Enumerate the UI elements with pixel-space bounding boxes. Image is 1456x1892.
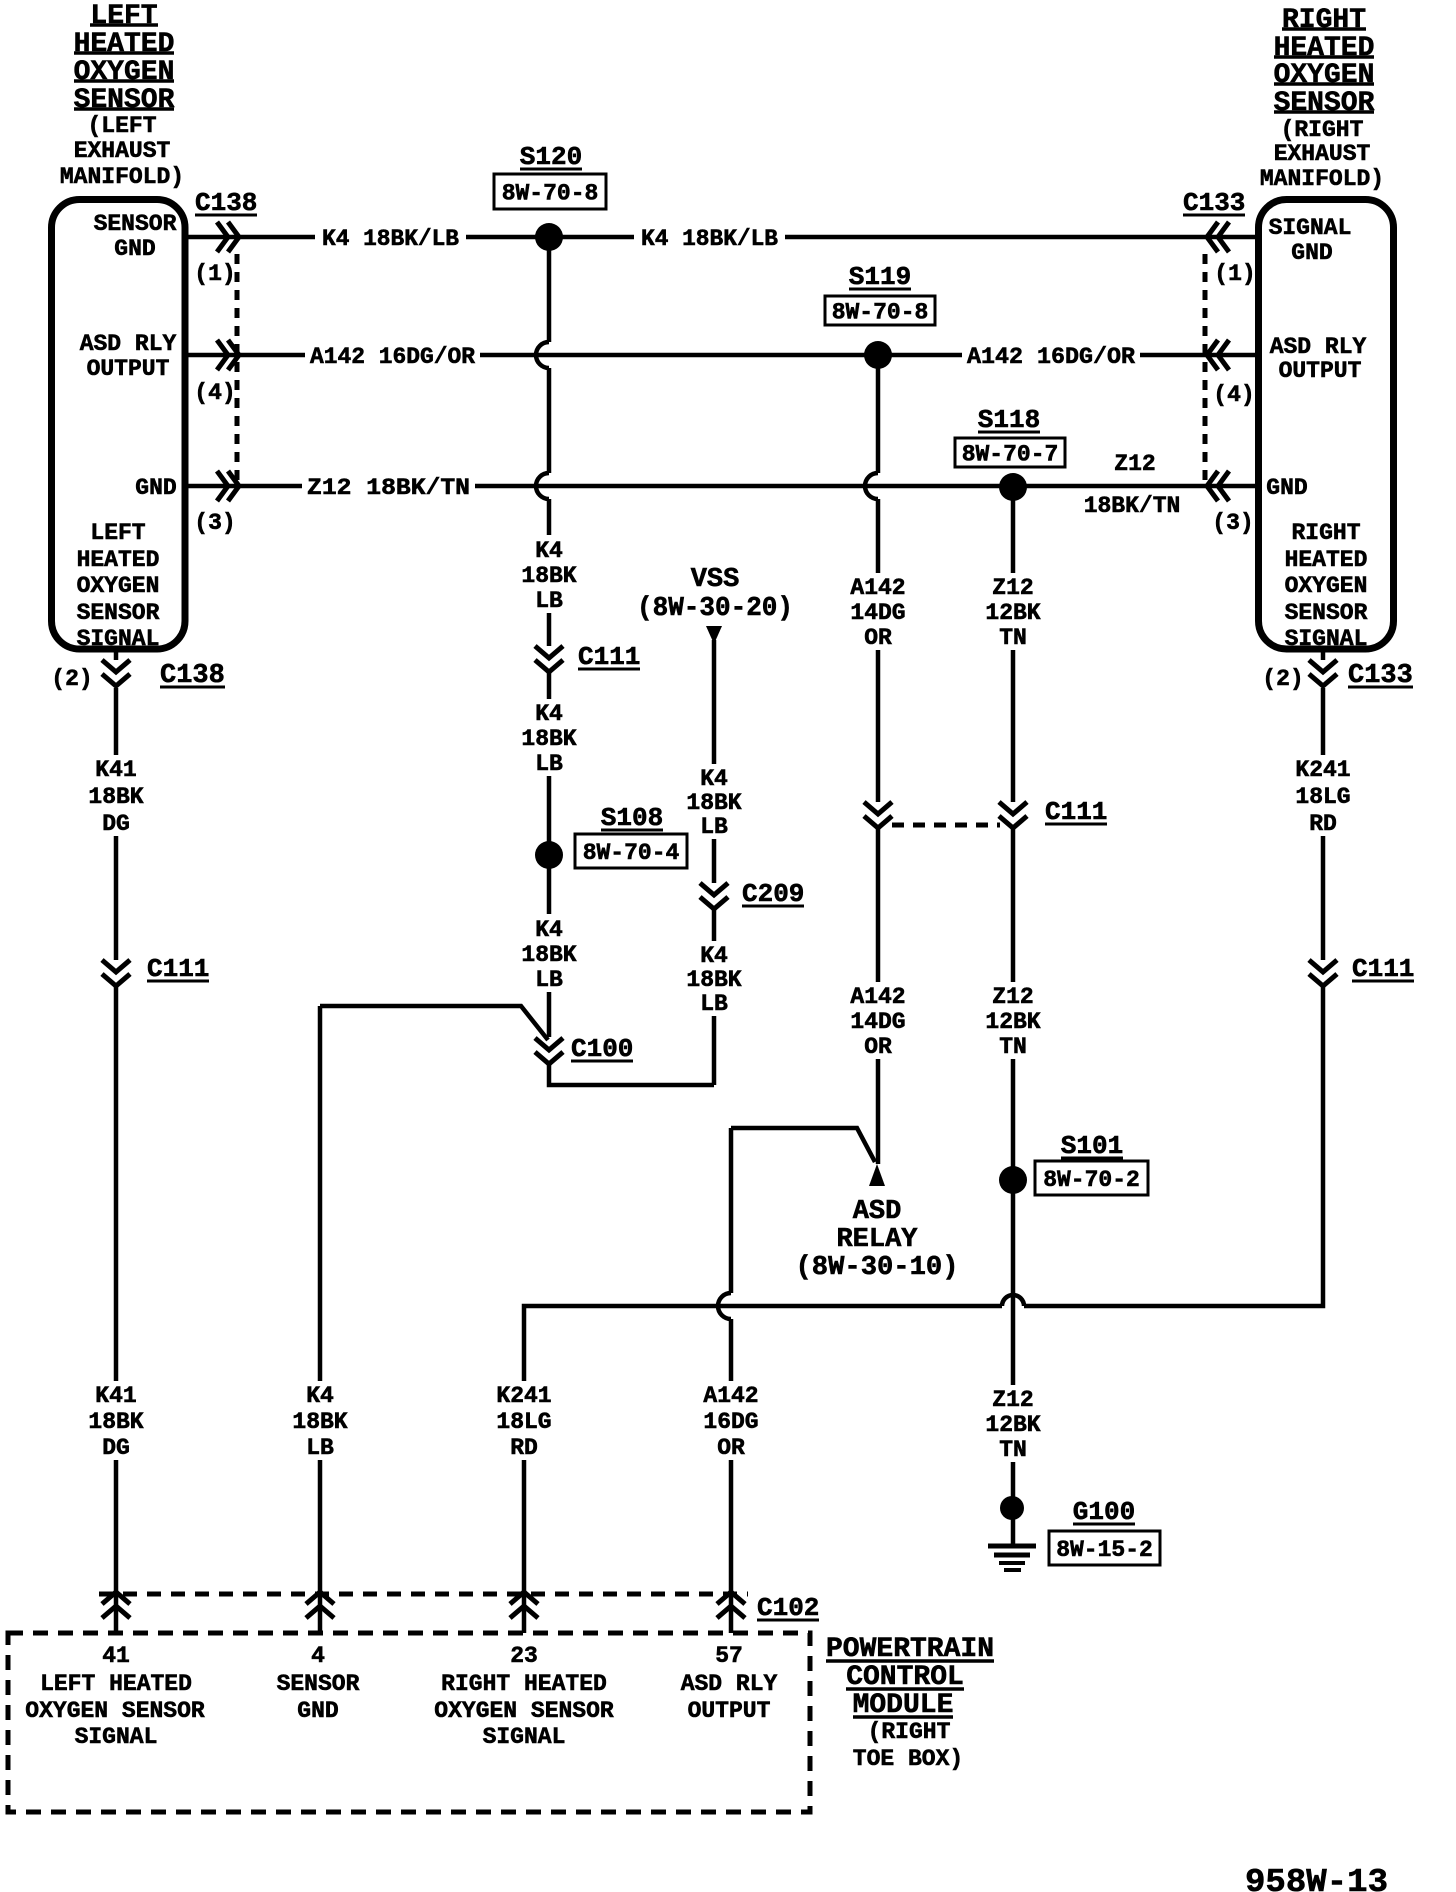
connector C100 chevrons (535, 1038, 563, 1064)
pin (3) left (194, 510, 235, 536)
wire to C111 right (1321, 836, 1326, 960)
wire below C209 (712, 909, 717, 941)
VSS arrow (706, 626, 722, 644)
pin (4) left (194, 380, 235, 406)
wire from S119 right (890, 353, 962, 358)
PCM pin 4 labels (277, 1643, 360, 1724)
svg-text:18BK: 18BK (88, 784, 143, 810)
svg-text:(4): (4) (194, 380, 235, 406)
wire K4 18BK/LB sensor gnd left segment (188, 235, 315, 240)
svg-text:LEFT HEATED: LEFT HEATED (40, 1671, 192, 1697)
wire pin 4 down (318, 1006, 323, 1381)
svg-text:18BK: 18BK (521, 726, 576, 752)
svg-text:RD: RD (1309, 811, 1337, 837)
svg-text:8W-70-7: 8W-70-7 (962, 442, 1059, 468)
svg-text:SENSOR: SENSOR (94, 211, 177, 237)
label K4 18BK/LB right (641, 226, 778, 252)
svg-text:(3): (3) (1212, 510, 1253, 536)
wire Z12 left segment (188, 484, 302, 489)
wire down to S101 (1011, 1059, 1016, 1168)
svg-text:18BK: 18BK (521, 942, 576, 968)
wire to C100 (547, 992, 552, 1037)
connector C102 dashed line (99, 1592, 748, 1597)
svg-text:SIGNAL: SIGNAL (1285, 626, 1368, 652)
svg-text:Z12: Z12 (992, 1387, 1033, 1413)
powertrain control module box (8, 1633, 810, 1812)
svg-text:MANIFOLD): MANIFOLD) (60, 164, 184, 190)
wire from VSS down (712, 640, 717, 764)
pin (3) right (1212, 510, 1253, 536)
svg-text:GND: GND (114, 236, 155, 262)
splice S101 label (1035, 1131, 1148, 1195)
svg-text:SENSOR: SENSOR (1274, 88, 1375, 119)
wire to C111 pair (876, 650, 881, 802)
connector C111 label mid (578, 642, 640, 672)
connector C102 label (757, 1593, 819, 1623)
connector C133 chevrons (1207, 222, 1229, 501)
svg-text:958W-13: 958W-13 (1245, 1864, 1388, 1892)
svg-text:TOE BOX): TOE BOX) (853, 1746, 963, 1772)
wire K241 down to corner (1024, 986, 1323, 1306)
svg-text:K4: K4 (700, 943, 728, 969)
PCM pin 23 labels (434, 1643, 614, 1750)
ground symbol G100 (988, 1546, 1036, 1570)
hop over Z12 wire (536, 473, 549, 499)
svg-text:(8W-30-10): (8W-30-10) (796, 1253, 959, 1283)
wire below S101 through junction (1011, 1193, 1016, 1385)
svg-text:RIGHT HEATED: RIGHT HEATED (441, 1671, 607, 1697)
svg-text:Z12 18BK/TN: Z12 18BK/TN (307, 475, 470, 501)
svg-text:OUTPUT: OUTPUT (1279, 358, 1362, 384)
svg-text:RELAY: RELAY (836, 1225, 918, 1255)
wire below C111 A column (876, 828, 881, 982)
connector C111 label pair (1045, 797, 1107, 827)
svg-text:8W-70-8: 8W-70-8 (832, 300, 929, 326)
connector C111 dashed link (892, 823, 1000, 828)
svg-text:(LEFT: (LEFT (87, 113, 156, 139)
label Z12 18BK/TN two lines (1084, 451, 1181, 519)
svg-text:SENSOR: SENSOR (1285, 600, 1368, 626)
svg-text:TN: TN (999, 1437, 1027, 1463)
svg-text:18BK: 18BK (686, 967, 741, 993)
svg-text:OR: OR (864, 1034, 892, 1060)
svg-text:18LG: 18LG (1295, 784, 1350, 810)
svg-text:ASD RLY: ASD RLY (681, 1671, 778, 1697)
wire to S108 (547, 776, 552, 843)
ASD relay arrow (869, 1164, 885, 1186)
wire K241 down (1321, 688, 1326, 755)
svg-text:K4: K4 (306, 1383, 334, 1409)
wire between hops (547, 368, 552, 473)
svg-text:LB: LB (700, 814, 728, 840)
svg-text:TN: TN (999, 1034, 1027, 1060)
svg-text:4: 4 (311, 1643, 325, 1669)
label A142 14DG OR lower (850, 984, 905, 1060)
svg-text:DG: DG (102, 811, 130, 837)
wire down to ASD relay arrow (876, 1059, 881, 1164)
svg-text:Z12: Z12 (992, 575, 1033, 601)
svg-text:14DG: 14DG (850, 600, 905, 626)
svg-text:A142: A142 (850, 575, 905, 601)
label A142 16DG OR bottom (703, 1383, 758, 1461)
pin (2) right (1262, 666, 1303, 692)
svg-text:18BK: 18BK (521, 563, 576, 589)
svg-text:LB: LB (535, 751, 563, 777)
wire down to G100 (1011, 1462, 1016, 1545)
svg-text:OXYGEN: OXYGEN (1274, 60, 1375, 91)
svg-text:OR: OR (717, 1435, 745, 1461)
left heated oxygen sensor box (52, 200, 186, 653)
connector C209 label (742, 879, 804, 909)
pin (1) right (1214, 261, 1255, 287)
svg-text:OXYGEN: OXYGEN (74, 57, 175, 88)
svg-text:OR: OR (864, 625, 892, 651)
splice S118 label (955, 405, 1065, 468)
pin (1) left (194, 261, 235, 287)
label Z12 12BK TN lower (985, 984, 1040, 1060)
svg-text:SIGNAL: SIGNAL (1269, 215, 1352, 241)
svg-text:K41: K41 (95, 1383, 136, 1409)
label K4 18BK LB vss 2 (686, 943, 741, 1017)
label K41 18BK DG (88, 757, 143, 837)
svg-text:K4: K4 (535, 538, 563, 564)
svg-text:14DG: 14DG (850, 1009, 905, 1035)
svg-text:OXYGEN SENSOR: OXYGEN SENSOR (25, 1698, 205, 1724)
label K241 18LG RD bottom (496, 1383, 551, 1461)
svg-text:K4 18BK/LB: K4 18BK/LB (322, 226, 459, 252)
svg-text:LEFT: LEFT (90, 1, 157, 32)
connector C138 dashed line (235, 254, 240, 480)
svg-text:(2): (2) (51, 666, 92, 692)
powertrain control module title (826, 1634, 994, 1772)
svg-text:OXYGEN: OXYGEN (77, 573, 160, 599)
svg-text:GND: GND (135, 475, 176, 501)
splice S119 dot (864, 341, 892, 369)
svg-text:OUTPUT: OUTPUT (688, 1698, 771, 1724)
connector C111 chevrons right column (1309, 960, 1337, 986)
wire pin4 horizontal (320, 1006, 548, 1040)
VSS label (637, 565, 793, 624)
splice S120 dot (535, 223, 563, 251)
wire pin57 vertical lower (729, 1319, 734, 1381)
label Z12 18BK/TN left (307, 475, 470, 501)
connector C209 chevrons (700, 883, 728, 909)
svg-text:12BK: 12BK (985, 600, 1040, 626)
wire K41 long down (114, 986, 119, 1381)
svg-text:Z12: Z12 (1114, 451, 1155, 477)
label K241 18LG RD (1295, 757, 1350, 837)
svg-text:18BK/TN: 18BK/TN (1084, 493, 1181, 519)
wire to PCM pin 57 (729, 1460, 734, 1633)
splice S108 label (575, 803, 687, 868)
label K4 18BK LB 2 (521, 701, 576, 777)
label K4 18BK LB 3 (521, 917, 576, 993)
svg-text:SENSOR: SENSOR (77, 600, 160, 626)
connector C133 label bottom (1348, 661, 1413, 691)
svg-text:HEATED: HEATED (1285, 547, 1368, 573)
svg-text:A142: A142 (703, 1383, 758, 1409)
connector C111 chevrons Z column (999, 802, 1027, 828)
svg-text:SIGNAL: SIGNAL (75, 1724, 158, 1750)
wire from S118 to C133 (1026, 484, 1255, 489)
svg-text:MANIFOLD): MANIFOLD) (1260, 166, 1384, 192)
svg-text:(4): (4) (1213, 382, 1254, 408)
wire A142 from S119 down (876, 368, 881, 473)
svg-text:LB: LB (306, 1435, 334, 1461)
label K41 18BK DG bottom (88, 1383, 143, 1461)
svg-text:VSS: VSS (691, 565, 740, 595)
wire to splice S120 (466, 235, 536, 240)
wire below C100 and corner to VSS branch (549, 1064, 714, 1085)
ground G100 dot (1000, 1496, 1024, 1520)
svg-text:EXHAUST: EXHAUST (74, 138, 171, 164)
svg-text:23: 23 (510, 1643, 538, 1669)
svg-text:EXHAUST: EXHAUST (1274, 141, 1371, 167)
label A142 14DG OR upper (850, 575, 905, 651)
wire to PCM pin 23 (522, 1460, 527, 1633)
svg-text:57: 57 (715, 1643, 743, 1669)
wire to C111 (547, 613, 552, 646)
splice S119 label (825, 262, 935, 326)
wire K4 from S120 down (547, 250, 552, 342)
connector C138 label bottom (160, 661, 225, 691)
svg-text:LEFT: LEFT (90, 520, 145, 546)
svg-text:8W-15-2: 8W-15-2 (1056, 1537, 1153, 1563)
svg-text:ASD: ASD (853, 1197, 902, 1227)
svg-text:A142 16DG/OR: A142 16DG/OR (967, 344, 1135, 370)
svg-text:RIGHT: RIGHT (1291, 520, 1360, 546)
connector C111 chevrons A column (864, 802, 892, 828)
svg-text:8W-70-8: 8W-70-8 (502, 181, 599, 207)
svg-text:OUTPUT: OUTPUT (87, 356, 170, 382)
svg-text:LB: LB (535, 588, 563, 614)
label K4 18BK/LB left (322, 226, 459, 252)
svg-text:SIGNAL: SIGNAL (483, 1724, 566, 1750)
wire down to label (547, 499, 552, 535)
svg-text:18LG: 18LG (496, 1409, 551, 1435)
svg-text:K41: K41 (95, 757, 136, 783)
svg-text:SENSOR: SENSOR (277, 1671, 360, 1697)
svg-text:LB: LB (535, 967, 563, 993)
hop over A142 wire (536, 342, 549, 368)
wire to PCM pin 4 (318, 1460, 323, 1633)
svg-text:12BK: 12BK (985, 1009, 1040, 1035)
svg-text:OXYGEN: OXYGEN (1285, 573, 1368, 599)
label K4 18BK LB bottom (292, 1383, 347, 1461)
wire pin57 horizontal to ASD arrow (731, 1128, 875, 1162)
wire K4 to C133 (785, 235, 1255, 240)
svg-text:K241: K241 (496, 1383, 551, 1409)
wire 1306 to pin 23 corner (524, 1306, 1002, 1381)
wire pin57 vertical upper (729, 1128, 734, 1293)
label A142 16DG/OR right (967, 344, 1135, 370)
svg-text:K4: K4 (700, 766, 728, 792)
splice S101 dot (999, 1166, 1027, 1194)
wire K41 from C138 down (114, 688, 119, 755)
connector C111 label left column (147, 954, 209, 984)
hop over Z12 wire A column (865, 473, 878, 499)
svg-text:12BK: 12BK (985, 1412, 1040, 1438)
hop pin57 over 1306 wire (718, 1293, 731, 1319)
PCM pin 57 labels (681, 1643, 778, 1724)
connector C138 bottom chevron (102, 652, 130, 686)
svg-text:RD: RD (510, 1435, 538, 1461)
label Z12 12BK TN bottom (985, 1387, 1040, 1463)
svg-text:K4: K4 (535, 701, 563, 727)
wire Z12 from S118 down (1011, 500, 1016, 573)
svg-text:(RIGHT: (RIGHT (1281, 117, 1364, 143)
connector C133 bottom chevron (1309, 652, 1337, 686)
svg-text:A142 16DG/OR: A142 16DG/OR (310, 344, 475, 370)
svg-text:(1): (1) (194, 261, 235, 287)
svg-text:A142: A142 (850, 984, 905, 1010)
svg-text:SIGNAL: SIGNAL (77, 626, 160, 652)
svg-text:GND: GND (1266, 475, 1307, 501)
svg-text:18BK: 18BK (88, 1409, 143, 1435)
right heated oxygen sensor box (1259, 200, 1394, 653)
wire down to label (876, 499, 881, 573)
PCM pin 41 labels (25, 1643, 205, 1750)
wire to C209 (712, 839, 717, 883)
wire below C111 Z column (1011, 828, 1016, 982)
svg-text:K4: K4 (535, 917, 563, 943)
svg-text:RIGHT: RIGHT (1282, 5, 1366, 36)
wire to C111 pair Z column (1011, 650, 1016, 802)
wire down to junction (712, 1016, 717, 1085)
connector C102 chevrons (102, 1592, 745, 1618)
connector C111 label right column (1352, 954, 1414, 984)
svg-text:ASD RLY: ASD RLY (1270, 334, 1367, 360)
right heated oxygen sensor title (1260, 5, 1384, 192)
wire A142 left segment (188, 353, 305, 358)
wire below C111 (547, 672, 552, 699)
wire A142 to C133 (1140, 353, 1255, 358)
svg-text:HEATED: HEATED (74, 29, 175, 60)
hop over Z12 on 1306 wire (1002, 1295, 1024, 1306)
svg-text:18BK: 18BK (686, 790, 741, 816)
svg-text:K4 18BK/LB: K4 18BK/LB (641, 226, 778, 252)
svg-text:(1): (1) (1214, 261, 1255, 287)
wire to PCM pin 41 (114, 1460, 119, 1633)
svg-text:(RIGHT: (RIGHT (868, 1719, 951, 1745)
svg-text:(2): (2) (1262, 666, 1303, 692)
pin (2) left (51, 666, 92, 692)
svg-text:TN: TN (999, 625, 1027, 651)
svg-text:Z12: Z12 (992, 984, 1033, 1010)
svg-text:SENSOR: SENSOR (74, 85, 175, 116)
splice S120 label (494, 142, 606, 209)
svg-text:K241: K241 (1295, 757, 1350, 783)
label K4 18BK LB vss (686, 766, 741, 840)
connector C111 chevrons mid (535, 646, 563, 672)
wire A142 middle segment to S119 (480, 353, 866, 358)
ASD relay label (796, 1197, 959, 1283)
svg-text:(8W-30-20): (8W-30-20) (637, 594, 793, 624)
svg-text:DG: DG (102, 1435, 130, 1461)
wire below S108 (547, 868, 552, 914)
svg-text:HEATED: HEATED (77, 547, 160, 573)
left heated oxygen sensor title (60, 1, 184, 190)
svg-text:41: 41 (102, 1643, 130, 1669)
connector C111 chevrons left column (102, 960, 130, 986)
connector C138 label top (195, 188, 257, 218)
svg-text:LB: LB (700, 991, 728, 1017)
svg-text:8W-70-2: 8W-70-2 (1043, 1167, 1140, 1193)
connector C133 label top (1183, 188, 1245, 218)
svg-text:18BK: 18BK (292, 1409, 347, 1435)
pin (4) right (1213, 382, 1254, 408)
wire Z12 middle segment to S118 (475, 484, 1001, 489)
label A142 16DG/OR left (310, 344, 475, 370)
svg-text:(3): (3) (194, 510, 235, 536)
drawing number 958W-13 (1245, 1864, 1388, 1892)
wire from S120 right (562, 235, 634, 240)
svg-text:8W-70-4: 8W-70-4 (583, 840, 680, 866)
label Z12 12BK TN upper (985, 575, 1040, 651)
svg-text:OXYGEN SENSOR: OXYGEN SENSOR (434, 1698, 614, 1724)
wire to C111 left (114, 836, 119, 960)
ground G100 label (1049, 1497, 1160, 1565)
connector C138 chevrons (217, 222, 239, 501)
connector C133 dashed line (1203, 254, 1208, 480)
svg-text:ASD RLY: ASD RLY (80, 331, 177, 357)
svg-text:16DG: 16DG (703, 1409, 758, 1435)
splice S108 dot (535, 841, 563, 869)
svg-text:GND: GND (297, 1698, 338, 1724)
connector C100 label (571, 1034, 633, 1064)
splice S118 dot (999, 473, 1027, 501)
label K4 18BK LB (521, 538, 576, 614)
svg-text:GND: GND (1291, 240, 1332, 266)
